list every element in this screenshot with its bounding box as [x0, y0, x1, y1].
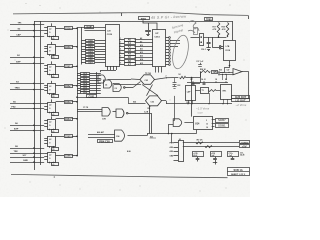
- stack 2 net labels: [81, 73, 90, 75]
- wire bus to mixer lower input: [77, 97, 128, 99]
- flip-flop U5 body: [48, 103, 56, 113]
- scan speckles: [26, 3, 27, 4]
- wires into mixer 1: [131, 78, 140, 81]
- wire C067 to U9 pin: [95, 62, 106, 64]
- flip-flop U7 clock pin top stub: [51, 134, 53, 137]
- mixer C03 upper: [140, 75, 155, 85]
- flip-flop U1 input pin stubs: [44, 27, 48, 29]
- input wire S17: [10, 157, 44, 159]
- IC U9 right pin stubs: [119, 39, 124, 41]
- border right end tick: [248, 15, 250, 19]
- wire R20 to VR1: [216, 90, 220, 92]
- flip-flop U7 body: [48, 137, 56, 147]
- net label +5VDC: [240, 141, 250, 144]
- flip-flop U6 input pin stubs: [44, 120, 48, 122]
- U14 bottom wire: [196, 130, 198, 134]
- handwritten scribble near connector: [189, 21, 199, 31]
- input bubbles at C010: [219, 46, 221, 48]
- IC U9 C012296 body: [106, 25, 120, 67]
- flip-flop U6 bottom pin stubs: [49, 129, 51, 131]
- input wire S2: [10, 57, 44, 59]
- feedback wire from mixer: [192, 83, 200, 85]
- wire A0 to U10 pin: [135, 39, 153, 41]
- power connector P1: [179, 141, 184, 162]
- wire C060 to U9 pin: [95, 43, 106, 45]
- flip-flop U5 bottom pin stubs: [49, 112, 51, 114]
- T1 bottom wire: [209, 93, 211, 104]
- flip-flop U6 clock pin top stub: [51, 116, 53, 119]
- net label C066: [65, 155, 73, 158]
- net label C060: [65, 46, 73, 49]
- stub wires below input row: [222, 74, 224, 80]
- input wire PS2: [10, 108, 44, 110]
- IC U14 body: [194, 117, 213, 130]
- flip-flop U3 output wire: [56, 66, 64, 68]
- input wire EXP: [10, 63, 44, 65]
- flip-flop U5 input pin stubs: [44, 103, 48, 105]
- net label C063 (stack 1): [86, 51, 95, 53]
- test point label TP80: [205, 18, 213, 21]
- capacitor label C45: [211, 152, 222, 157]
- flip-flop U6 output wire: [56, 118, 64, 120]
- IC U9 bottom pin stubs: [107, 66, 109, 70]
- flip-flop U4 set/reset sub-box: [52, 95, 59, 98]
- net label +5V: [240, 145, 250, 148]
- gate interconnect wire: [113, 111, 117, 113]
- flip-flop U8 set/reset sub-box: [52, 163, 59, 166]
- wire C062 to U9 pin: [95, 49, 106, 51]
- audio block top wire: [187, 82, 228, 84]
- net label C063: [65, 101, 73, 104]
- wire R30 to junction: [186, 77, 200, 79]
- wire A2 to U10 pin: [135, 46, 153, 48]
- net label C061 (stack 1): [86, 46, 95, 48]
- bottom sheet border line: [11, 174, 228, 177]
- flip-flop U3 input pin stubs: [44, 65, 48, 67]
- paper background: [0, 0, 250, 197]
- wire C064 to U9 pin: [95, 54, 106, 56]
- audio path wire: [166, 103, 232, 105]
- flip-flop U3 body: [48, 65, 56, 75]
- gate C06 lower output wire: [128, 135, 148, 137]
- power connector pin stubs: [174, 142, 179, 144]
- left vertical bus wire B: [40, 21, 42, 165]
- net label C065: [65, 135, 73, 138]
- flip-flop U2 input pin stubs: [44, 46, 48, 48]
- ground cross below C45: [215, 160, 217, 165]
- gate C09: [173, 119, 182, 127]
- flip-flop U8 output wire: [56, 155, 64, 157]
- gate C09 output wire: [184, 122, 193, 124]
- flip-flop U3 set/reset sub-box: [52, 75, 59, 78]
- flip-flop U6 body: [48, 120, 56, 130]
- wire junction up to R24: [200, 72, 202, 78]
- resistor R17: [217, 23, 220, 36]
- ground below C22: [173, 86, 177, 88]
- wire C065 to U9 pin: [95, 57, 106, 59]
- IC U10 right pin stubs with bubbles: [166, 37, 169, 39]
- wire C063 to bus: [72, 101, 77, 103]
- resistor R18: [226, 23, 229, 36]
- flip-flop U1 bottom pin stubs: [49, 36, 51, 38]
- flip-flop U5 set/reset sub-box: [52, 113, 59, 116]
- capacitor label C46: [228, 152, 239, 157]
- test point label TP3: [139, 17, 150, 20]
- flip-flop U1 clock pin top stub: [51, 23, 53, 26]
- flip-flop U4 body: [48, 84, 56, 94]
- capacitor C44 plates: [203, 83, 206, 85]
- gate C07 inverter: [116, 109, 124, 117]
- wire C061 to U9 pin: [95, 46, 106, 48]
- wire A6 to U10 pin: [135, 60, 153, 62]
- gate C06 lower: [115, 130, 125, 141]
- wire C064 to bus: [72, 118, 77, 120]
- connector J1: [200, 34, 204, 46]
- stack 2 collector bus: [96, 72, 98, 94]
- gate C06: [102, 108, 110, 116]
- net label CAP: [85, 26, 94, 29]
- resistor R30: [180, 76, 186, 78]
- ground below C36: [208, 46, 210, 48]
- IC U10 C014806 body: [153, 30, 166, 67]
- flip-flop U2 clock pin top stub: [51, 42, 53, 45]
- wire CAP nets to U9 top pins: [77, 27, 106, 29]
- flip-flop U7 bottom pin stubs: [49, 146, 51, 148]
- net label AUX OUT: [232, 96, 250, 99]
- flip-flop U8 bottom pin stubs: [49, 162, 51, 164]
- capacitor C47 plates: [192, 83, 195, 85]
- IC L4P body: [186, 86, 196, 101]
- wire C060 to bus: [72, 46, 77, 48]
- net label SDB1: [216, 124, 229, 128]
- input wire GND: [10, 162, 44, 164]
- mixer lower output wire: [162, 100, 167, 102]
- net label C064: [65, 118, 73, 121]
- wire A7 to U10 pin: [135, 64, 153, 66]
- wire C066 to U9 pin: [95, 59, 106, 61]
- gate C07 output wire: [128, 113, 152, 115]
- net label C062 (stack 1): [86, 48, 95, 50]
- input wire TP1: [10, 24, 44, 26]
- input wire TRIG: [10, 89, 44, 91]
- mixer lower bottom junction: [149, 106, 150, 107]
- input wire TR2: [10, 153, 44, 155]
- gate C04 B: [104, 80, 112, 88]
- resistor R20: [209, 90, 217, 92]
- capacitor C36: [208, 37, 210, 42]
- wire C063 to U9 pin: [95, 51, 106, 53]
- IC U10 bottom pin stubs: [155, 67, 157, 73]
- power wire lower: [183, 146, 239, 148]
- flip-flop U2 output wire: [56, 46, 64, 48]
- wire L4P to T1: [195, 90, 200, 92]
- net label C059 (stack 1): [86, 40, 95, 42]
- L4P bottom pin wires: [188, 100, 190, 104]
- title block box: [228, 168, 250, 176]
- gate C06 lower inputs: [88, 134, 115, 136]
- flip-flop U1 body: [48, 27, 56, 37]
- gate output wires: [108, 79, 132, 81]
- stack 1 bus wire: [81, 27, 83, 65]
- scan noise overlay: [0, 0, 1, 1]
- capacitor C45 symbol: [215, 157, 217, 159]
- U14 output wires: [212, 119, 216, 121]
- input wire CAP: [10, 36, 44, 38]
- net label C061: [65, 65, 73, 68]
- gate C04 A: [98, 75, 105, 83]
- flip-flop U4 input pin stubs: [44, 85, 48, 87]
- wire C059 to U9 pin: [95, 40, 106, 42]
- wire C010 to op-amp: [229, 61, 231, 66]
- wire C059 to bus: [72, 28, 77, 30]
- flip-flop U1 set/reset sub-box: [52, 37, 59, 40]
- wire connector to divider: [203, 37, 226, 39]
- capacitor label C44: [193, 152, 204, 157]
- border tick near bus: [121, 13, 123, 16]
- flip-flop U7 input pin stubs: [44, 138, 48, 140]
- handwritten oval around U10 pins: [170, 34, 191, 70]
- VR1 bottom pin wires: [223, 99, 225, 104]
- vertical wire to gate C09: [174, 96, 176, 121]
- input wire S6: [10, 125, 44, 127]
- wire C066 to bus: [72, 155, 77, 157]
- net label LO OUT: [232, 99, 250, 102]
- coupling box T1: [201, 88, 209, 94]
- flip-flop U5 clock pin top stub: [51, 99, 53, 102]
- flip-flop U2 body: [48, 45, 56, 55]
- capacitor C22: [174, 78, 176, 83]
- wire C062 to bus: [72, 85, 77, 87]
- net label C059: [65, 27, 73, 30]
- wire A4 to U10 pin: [135, 53, 153, 55]
- flip-flop U2 bottom pin stubs: [49, 54, 51, 56]
- net label C064 (stack 1): [86, 54, 95, 56]
- top sheet border line: [13, 13, 248, 16]
- wire U9 bottom to stack 2: [101, 70, 116, 72]
- wire A1 to U10 pin: [135, 42, 153, 44]
- op-amp A1: [233, 69, 242, 75]
- flip-flop U3 bottom pin stubs: [49, 74, 51, 76]
- gate C09 input wires: [172, 120, 175, 122]
- capacitor C44 symbol: [197, 157, 199, 159]
- flip-flop U7 output wire: [56, 136, 64, 138]
- net label SDB7: [216, 119, 229, 123]
- mixer C03 lower: [146, 96, 162, 106]
- flip-flop U1 output wire: [56, 28, 64, 30]
- power wire upper: [183, 142, 239, 144]
- gate C06 inputs: [77, 109, 102, 111]
- op-amp output wire: [242, 71, 249, 73]
- left vertical bus wire A: [34, 21, 36, 170]
- input wire S2: [10, 30, 44, 32]
- IC U10 top pin wire: [143, 20, 157, 29]
- wire C061 to bus: [72, 66, 77, 68]
- wires from U10 pins rightward: [170, 40, 180, 42]
- flip-flop U2 set/reset sub-box: [52, 56, 59, 59]
- IC C010 body: [224, 41, 236, 61]
- +5V power rail wire: [34, 21, 233, 23]
- mixer upper output wire: [155, 78, 179, 80]
- flip-flop U4 output wire: [56, 85, 64, 87]
- wire A5 to U10 pin: [135, 57, 153, 59]
- flip-flop U8 clock pin top stub: [51, 149, 53, 152]
- flip-flop U5 output wire: [56, 101, 64, 103]
- wire divider down to C010: [212, 37, 214, 47]
- flip-flop U8 input pin stubs: [44, 153, 48, 155]
- input wire S5: [10, 103, 44, 105]
- connector stub wire left: [191, 37, 200, 39]
- flip-flop U3 clock pin top stub: [51, 61, 53, 64]
- flip-flop U7 set/reset sub-box: [52, 148, 59, 151]
- net label C066 (stack 1): [86, 59, 95, 61]
- flip-flop U6 set/reset sub-box: [52, 130, 59, 133]
- input wire S3: [10, 83, 44, 85]
- net label on lower mixer wire: [87, 95, 97, 98]
- net label TP5: [212, 71, 218, 74]
- wire A3 to U10 pin: [135, 50, 153, 52]
- flip-flop output vertical bus wire: [77, 28, 79, 157]
- net label C060 (stack 1): [86, 43, 95, 45]
- IC VR1 body: [221, 85, 232, 100]
- flip-flop U4 clock pin top stub: [51, 81, 53, 84]
- small box in annotation: [194, 28, 198, 35]
- gate C04 C: [113, 84, 121, 92]
- decoupling capacitor at U10: [148, 23, 150, 30]
- net label C065 (stack 1): [86, 57, 95, 59]
- net label PB4: [98, 140, 113, 143]
- rail drop wire right: [232, 21, 234, 40]
- wire to bottom rail: [151, 113, 153, 133]
- net label C067 (stack 1): [86, 62, 95, 64]
- input wire S8: [10, 148, 44, 150]
- capacitor C46 symbol: [232, 157, 234, 159]
- ground at U10 capacitor: [146, 34, 150, 36]
- flip-flop U4 bottom pin stubs: [49, 93, 51, 95]
- op-amp input wires with bubbles: [218, 72, 219, 73]
- input wire EXP: [10, 130, 44, 132]
- flip-flop U8 body: [48, 153, 56, 163]
- crossing wires between mixers: [142, 85, 158, 96]
- junction dots on input row: [222, 74, 223, 75]
- wire C065 to bus: [72, 136, 77, 138]
- wire junction to mixer2 rail: [191, 78, 193, 117]
- net label C062: [65, 85, 73, 88]
- wire rail to power connector: [171, 134, 173, 143]
- address net label column: [125, 39, 136, 42]
- bottom middle rail wire: [147, 133, 197, 135]
